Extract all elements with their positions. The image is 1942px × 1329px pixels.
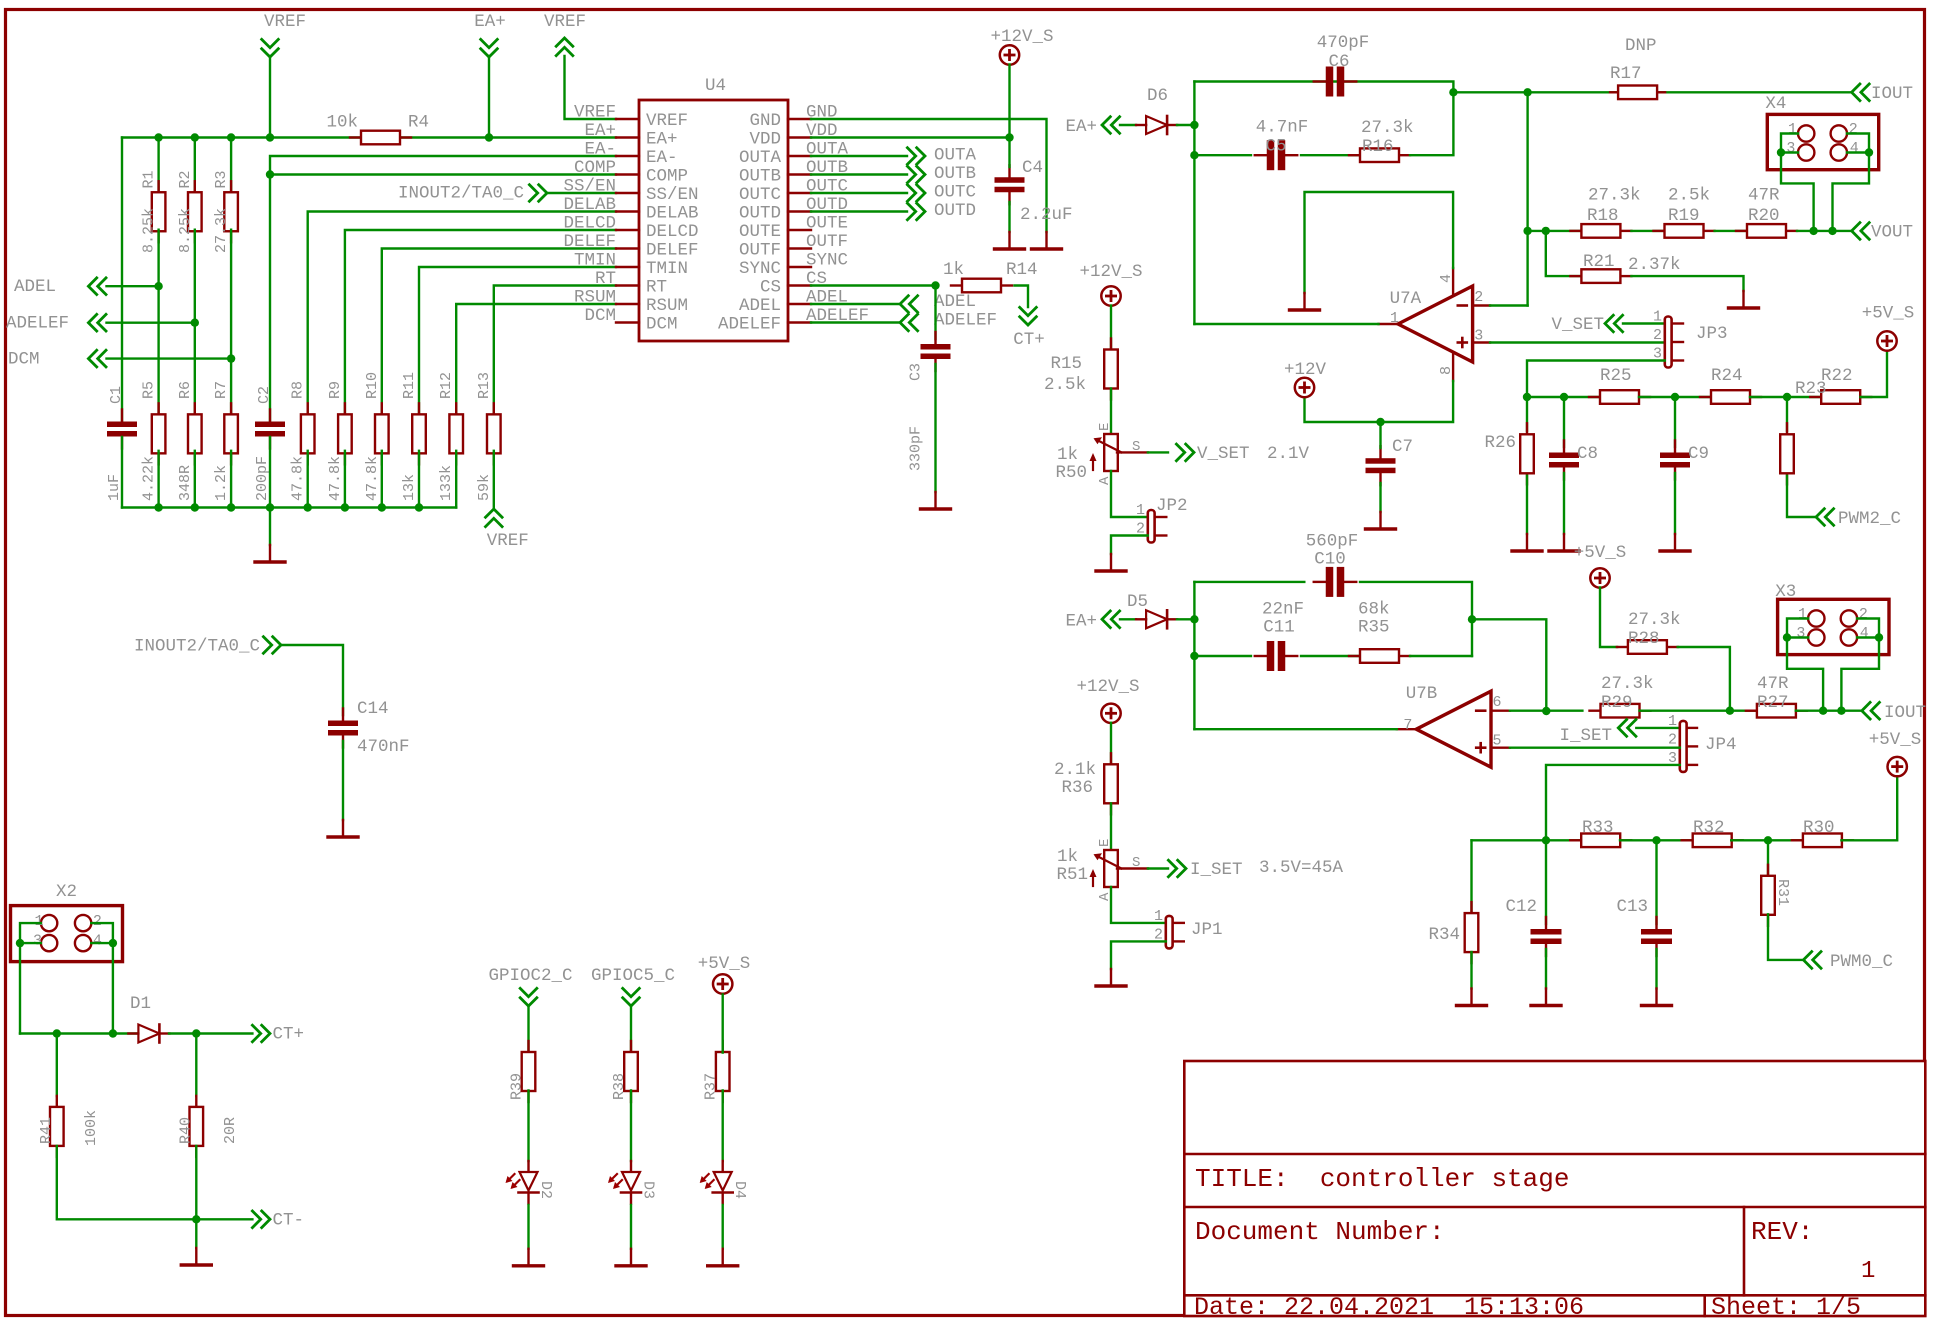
wire R5 to bus	[157, 451, 159, 508]
resistor R10	[364, 372, 389, 501]
node R33 row junctions	[1542, 836, 1772, 844]
svg-text:2.37k: 2.37k	[1628, 255, 1681, 275]
svg-text:R26: R26	[1484, 433, 1516, 453]
resistor R1	[141, 170, 166, 253]
svg-text:Document Number:: Document Number:	[1195, 1217, 1445, 1247]
svg-text:2.5k: 2.5k	[1044, 375, 1086, 395]
resistor R9	[327, 381, 352, 501]
net flag CT-	[251, 1210, 304, 1230]
svg-text:2: 2	[1653, 327, 1662, 344]
wire R26 branch	[1526, 397, 1528, 431]
net flag OUTD	[906, 201, 976, 221]
svg-text:R19: R19	[1668, 206, 1700, 226]
svg-text:OUTE: OUTE	[739, 222, 781, 242]
svg-text:2: 2	[93, 913, 102, 930]
svg-text:IOUT: IOUT	[1871, 84, 1913, 104]
svg-text:1uF: 1uF	[106, 474, 123, 501]
wire D2 to ground	[527, 1205, 529, 1249]
wire R3 to tap	[230, 230, 232, 359]
wire C1 to bus	[121, 437, 123, 508]
wire D4 to ground	[722, 1205, 724, 1249]
node C (DCM tap)	[227, 354, 235, 362]
wire C12 branch	[1545, 840, 1547, 924]
resistor R31	[1761, 865, 1791, 926]
svg-text:27.3k: 27.3k	[1361, 118, 1414, 138]
svg-text:1: 1	[1798, 606, 1807, 623]
svg-text:R34: R34	[1428, 925, 1460, 945]
svg-text:OUTA: OUTA	[934, 146, 977, 166]
svg-text:1: 1	[1861, 1258, 1875, 1285]
svg-text:CS: CS	[760, 278, 781, 298]
svg-text:C3: C3	[908, 363, 925, 381]
supply VREF (bottom, at R13)	[485, 509, 529, 551]
svg-text:13k: 13k	[401, 474, 418, 501]
wire OUTA to flag	[811, 155, 907, 157]
svg-text:EA+: EA+	[646, 130, 678, 150]
node U7B pin6 junction	[1542, 707, 1550, 715]
node X4 pin3 junction	[1777, 148, 1785, 156]
capacitor C12	[1505, 897, 1561, 956]
ground for R34	[1457, 989, 1487, 1006]
resistor R14	[943, 260, 1038, 292]
ground for U7A pin4	[1290, 293, 1320, 310]
wire C3 to ground	[934, 364, 936, 492]
capacitor C9	[1660, 441, 1709, 480]
wire R23 branch	[1786, 397, 1788, 431]
svg-text:3.5V=45A: 3.5V=45A	[1259, 858, 1344, 878]
jumper JP1	[1154, 908, 1223, 948]
net flag ADELEF (right of U4)	[900, 311, 997, 332]
svg-text:PWM2_C: PWM2_C	[1838, 509, 1901, 529]
svg-text:DELAB: DELAB	[563, 195, 616, 215]
svg-text:C12: C12	[1505, 897, 1537, 917]
wire C8 to ground	[1563, 473, 1565, 534]
svg-text:R14: R14	[1006, 260, 1038, 280]
net flag VOUT	[1852, 222, 1913, 243]
svg-text:RT: RT	[595, 269, 616, 289]
wire D1 to CT+ flag	[169, 1032, 252, 1034]
wire R21 branch	[1546, 231, 1581, 276]
wire OUTC to flag	[811, 192, 907, 194]
net flag INOUT2/TA0_C (to C14)	[134, 636, 281, 657]
wire R33-R32	[1620, 839, 1693, 841]
resistor R29	[1590, 674, 1654, 718]
net flag OUTC	[906, 183, 976, 203]
svg-text:R33: R33	[1582, 818, 1614, 838]
svg-text:200pF: 200pF	[254, 456, 271, 501]
node C5 row junction	[1190, 151, 1198, 159]
svg-text:2: 2	[1474, 289, 1483, 306]
ground for CT-	[181, 1248, 211, 1265]
svg-text:1: 1	[1136, 502, 1145, 519]
wire C9 to ground	[1674, 473, 1676, 534]
wire JP2 pin2 to ground	[1111, 536, 1148, 555]
svg-text:DELEF: DELEF	[563, 232, 616, 252]
resistor R15	[1044, 339, 1118, 400]
svg-text:R40: R40	[178, 1117, 195, 1144]
svg-text:2.1k: 2.1k	[1054, 760, 1096, 780]
svg-text:2: 2	[1849, 121, 1858, 138]
svg-text:R51: R51	[1056, 865, 1088, 885]
svg-text:CT+: CT+	[273, 1025, 305, 1045]
svg-text:R5: R5	[141, 381, 158, 399]
svg-text:R16: R16	[1362, 137, 1394, 157]
svg-text:GPIOC2_C: GPIOC2_C	[488, 966, 572, 986]
svg-text:2: 2	[1859, 606, 1868, 623]
resistor R40	[178, 1096, 240, 1157]
svg-text:R1: R1	[141, 170, 158, 188]
svg-text:+5V_S: +5V_S	[1869, 730, 1922, 750]
wire ADELEF from U4 to flag	[811, 321, 900, 323]
wire +12V_S to R36	[1110, 723, 1112, 765]
wire R23 to PWM2_C	[1787, 476, 1816, 517]
wire U7A pin4 gnd loop	[1305, 192, 1454, 293]
connector X3	[1775, 582, 1889, 655]
capacitor C3	[908, 332, 951, 471]
wire CT- to flag	[196, 1218, 252, 1220]
net flag GPIOC2_C	[488, 966, 572, 1006]
LED D4	[700, 1161, 749, 1204]
wire V_SET to JP3 pin1	[1623, 322, 1665, 324]
svg-text:EA+: EA+	[474, 12, 506, 32]
node C7 junction	[1376, 418, 1384, 426]
svg-text:C5: C5	[1265, 137, 1286, 157]
svg-text:R11: R11	[401, 372, 418, 399]
wire R36 to R51	[1110, 803, 1112, 850]
svg-text:4: 4	[93, 933, 102, 950]
resistor R34	[1428, 902, 1478, 963]
svg-text:1: 1	[1154, 908, 1163, 925]
wire R37 to D4	[722, 1090, 724, 1161]
svg-text:GPIOC5_C: GPIOC5_C	[591, 966, 675, 986]
svg-text:R20: R20	[1748, 206, 1780, 226]
node R18 branch junction	[1523, 88, 1531, 96]
ground for C13	[1642, 989, 1672, 1006]
svg-text:R30: R30	[1803, 818, 1835, 838]
wire U7A pin3 to JP3 pin2	[1490, 341, 1665, 343]
svg-text:IOUT: IOUT	[1884, 703, 1926, 723]
svg-text:10k: 10k	[326, 113, 358, 133]
svg-text:4: 4	[1850, 140, 1859, 157]
node X3 pin3 junction	[1783, 633, 1791, 641]
svg-text:8: 8	[1438, 366, 1455, 375]
svg-text:OUTC: OUTC	[739, 185, 781, 205]
node R21 branch	[1542, 227, 1550, 235]
supply +12V_S (top)	[990, 27, 1053, 65]
resistor R21	[1570, 252, 1680, 283]
wire R10 to bus	[381, 451, 383, 508]
svg-text:U4: U4	[705, 76, 726, 96]
resistor R20	[1736, 186, 1797, 238]
wire R18-R19	[1631, 230, 1668, 232]
wire C7 to ground	[1379, 483, 1381, 512]
wire C5/R16 row	[1194, 154, 1251, 156]
svg-text:R15: R15	[1050, 354, 1082, 374]
svg-text:2.1V: 2.1V	[1267, 444, 1310, 464]
wire R38 to D3	[630, 1090, 632, 1161]
supply VREF (top left)	[261, 12, 306, 57]
svg-text:1: 1	[1668, 713, 1677, 730]
wire R40 to CT- node	[195, 1146, 197, 1219]
ground for JP1	[1096, 969, 1126, 986]
ground for C9	[1660, 534, 1690, 551]
ground for C7	[1366, 512, 1396, 529]
resistor R17	[1610, 36, 1665, 99]
svg-text:R32: R32	[1693, 818, 1725, 838]
svg-text:R8: R8	[290, 381, 307, 399]
wire C8 branch	[1563, 397, 1565, 447]
capacitor C2	[254, 386, 285, 501]
node CT- junction	[192, 1215, 200, 1223]
wire X2 pin2/pin4 to CT+	[91, 923, 113, 1033]
svg-text:CT+: CT+	[1013, 330, 1045, 350]
ground for D4	[708, 1249, 738, 1266]
svg-text:R38: R38	[611, 1073, 628, 1100]
ground for JP2	[1096, 554, 1126, 571]
wire GPIOC5_C to R38	[630, 1006, 632, 1053]
svg-text:27.3k: 27.3k	[1601, 674, 1654, 694]
node fb right junction (U7B)	[1468, 615, 1476, 623]
wire C4 to ground	[1008, 202, 1010, 232]
ground under bus	[255, 545, 285, 562]
wire R18 node vertical	[1526, 92, 1528, 305]
wire R24-R22	[1750, 396, 1821, 398]
svg-text:1k: 1k	[1057, 445, 1078, 465]
svg-text:C6: C6	[1328, 52, 1349, 72]
wire CS node to C3	[934, 286, 936, 340]
wire to R5	[157, 286, 159, 417]
svg-text:DELAB: DELAB	[646, 204, 699, 224]
wire DELCD from U4 to R9	[345, 230, 616, 417]
net flag ADELEF	[6, 313, 107, 333]
svg-text:R27: R27	[1757, 693, 1789, 713]
svg-text:D3: D3	[640, 1181, 657, 1199]
resistor R24	[1700, 366, 1761, 404]
wire D5 to fb node	[1177, 618, 1194, 620]
ground for C8	[1549, 534, 1579, 551]
wire CS from U4 to R14 node	[811, 284, 936, 286]
resistor R7	[213, 381, 238, 501]
LED D2	[506, 1161, 555, 1204]
resistor R3	[213, 170, 238, 253]
resistor R12	[438, 372, 463, 501]
wire R26 to ground	[1526, 476, 1528, 534]
svg-text:R28: R28	[1628, 629, 1660, 649]
wire +5V_S to R37	[722, 995, 724, 1053]
svg-text:C1: C1	[108, 386, 125, 404]
resistor R33	[1570, 818, 1631, 847]
diode D5	[1127, 592, 1177, 628]
jumper JP2	[1136, 496, 1188, 543]
wire GND net from U4	[811, 119, 1047, 232]
node R18 row junction	[1523, 227, 1531, 235]
ground for U4 GND	[1032, 232, 1062, 249]
node X2 pin3 junction	[16, 939, 24, 947]
jumper JP4	[1668, 713, 1737, 772]
title block TITLE text	[1195, 1164, 1569, 1194]
LED D3	[608, 1161, 657, 1204]
resistor R41	[38, 1096, 100, 1157]
wire EA+ rail	[122, 136, 616, 138]
node B (ADELEF tap)	[191, 319, 199, 327]
svg-text:VREF: VREF	[646, 111, 688, 131]
svg-text:OUTF: OUTF	[806, 232, 848, 252]
svg-text:8.25k: 8.25k	[177, 208, 194, 253]
op-amp U7A	[1379, 268, 1491, 381]
wire R18 row	[1528, 230, 1582, 232]
net flag DCM	[8, 349, 107, 369]
wire R15 to R50	[1110, 389, 1112, 435]
title block REV value	[1861, 1258, 1875, 1285]
svg-text:RSUM: RSUM	[574, 288, 616, 308]
supply +12V_S (R36)	[1076, 677, 1139, 723]
net flag I_SET (JP4)	[1559, 719, 1636, 746]
resistor R22	[1810, 366, 1871, 404]
wire JP4 pin3 down	[1546, 765, 1680, 840]
supply VREF (arrow up, near U4)	[544, 12, 586, 57]
wire X3 pins 2/4 down	[1841, 619, 1879, 711]
wire VREF bottom bus	[122, 506, 456, 508]
potentiometer R51	[1056, 839, 1147, 901]
resistor R35	[1349, 600, 1410, 663]
ground for R21	[1729, 291, 1759, 308]
svg-text:E: E	[1097, 839, 1113, 847]
svg-text:ADEL: ADEL	[14, 277, 56, 297]
wire C13 branch	[1655, 840, 1657, 924]
svg-text:OUTC: OUTC	[934, 183, 976, 203]
wire U7A pin8 to +12V	[1305, 381, 1454, 422]
svg-text:U7A: U7A	[1390, 289, 1422, 309]
wire R35 right	[1410, 655, 1472, 657]
svg-text:R13: R13	[476, 372, 493, 399]
svg-text:R2: R2	[177, 170, 194, 188]
wire R16 to fb right vertical	[1410, 92, 1453, 155]
svg-text:C4: C4	[1022, 158, 1043, 178]
svg-text:R36: R36	[1061, 778, 1093, 798]
wire R20 to VOUT flag	[1797, 230, 1852, 232]
wire R21 to ground	[1631, 276, 1743, 291]
svg-text:R10: R10	[364, 372, 381, 399]
wire R17 row	[1453, 91, 1851, 93]
net flag PWM2_C	[1816, 508, 1901, 529]
svg-text:D4: D4	[731, 1181, 748, 1199]
net flag CT+	[251, 1024, 304, 1044]
wire R11 to bus	[418, 451, 420, 508]
svg-text:1: 1	[34, 913, 43, 930]
wire R25-R24	[1639, 396, 1711, 398]
svg-text:C11: C11	[1263, 618, 1295, 638]
svg-text:27.3k: 27.3k	[1588, 186, 1641, 206]
label I_SET scale	[1259, 858, 1344, 878]
wire to R7	[230, 359, 232, 417]
svg-text:DCM: DCM	[584, 306, 616, 326]
svg-text:INOUT2/TA0_C: INOUT2/TA0_C	[398, 184, 524, 204]
svg-text:20R: 20R	[222, 1117, 239, 1144]
svg-text:R29: R29	[1601, 693, 1633, 713]
wire ADEL flag to R1	[107, 285, 159, 287]
svg-text:X2: X2	[56, 882, 77, 902]
resistor R11	[401, 372, 426, 501]
svg-text:C2: C2	[256, 386, 273, 404]
resistor R25	[1589, 366, 1650, 404]
svg-text:Date: 22.04.2021 15:13:06: Date: 22.04.2021 15:13:06	[1194, 1293, 1584, 1322]
supply +5V_S (R28)	[1574, 543, 1627, 588]
wire bus to ground	[269, 508, 271, 546]
resistor R39	[509, 1041, 536, 1102]
IC U4 (PWM controller)	[563, 76, 869, 341]
wire ADEL from U4 to flag	[811, 303, 900, 305]
resistor R23	[1780, 379, 1826, 484]
wire R14 to CT+ flag	[1015, 286, 1029, 308]
svg-text:EA+: EA+	[584, 121, 616, 141]
wire R50 wiper to V_SET flag	[1148, 451, 1168, 453]
svg-text:R6: R6	[177, 381, 194, 399]
wire R50 to JP2 pin1	[1111, 471, 1148, 517]
svg-text:1: 1	[1788, 121, 1797, 138]
net flag ADEL (right of U4)	[900, 292, 976, 313]
svg-text:59k: 59k	[476, 474, 493, 501]
net flag EA+ (to D6)	[1065, 116, 1120, 137]
wire R33 row left	[1472, 839, 1582, 841]
svg-text:3: 3	[1796, 625, 1805, 642]
supply +5V_S (LED section)	[698, 954, 751, 994]
wire R8 to bus	[307, 451, 309, 508]
net flag OUTB	[906, 164, 976, 184]
wire R9 to bus	[344, 451, 346, 508]
svg-text:DELCD: DELCD	[563, 214, 616, 234]
capacitor C11	[1255, 600, 1304, 672]
wire R22 to +5V_S	[1861, 351, 1888, 398]
wire C7 top	[1379, 422, 1381, 448]
potentiometer R50	[1055, 423, 1147, 485]
svg-text:348R: 348R	[177, 465, 194, 501]
svg-text:DNP: DNP	[1625, 36, 1657, 56]
ground for D2	[514, 1249, 544, 1266]
svg-text:R21: R21	[1583, 252, 1615, 272]
wire R12 to bus	[455, 451, 457, 508]
svg-text:330pF: 330pF	[908, 426, 925, 471]
wire R25 row	[1527, 396, 1600, 398]
ground for C14	[328, 820, 358, 837]
wire R51 wiper to I_SET flag	[1148, 867, 1168, 869]
supply +12V_S (R15)	[1079, 262, 1142, 306]
svg-text:3: 3	[1474, 328, 1483, 345]
wire CT+ to R41	[56, 1034, 58, 1097]
svg-text:D6: D6	[1147, 86, 1168, 106]
resistor R38	[611, 1041, 638, 1102]
wire R31 branch	[1767, 840, 1769, 876]
node EA+ rail junctions	[154, 133, 493, 141]
supply EA+ (top)	[474, 12, 506, 57]
wire TMIN from U4 to R11	[419, 267, 616, 417]
svg-text:27.3k: 27.3k	[213, 208, 230, 253]
node VOUT junctions	[1809, 227, 1836, 235]
capacitor C6	[1314, 33, 1370, 97]
wire GPIOC2_C to R39	[527, 1006, 529, 1053]
svg-text:R4: R4	[408, 113, 429, 133]
svg-text:SYNC: SYNC	[739, 259, 781, 279]
wire R32-R30	[1731, 839, 1803, 841]
svg-text:ADEL: ADEL	[739, 296, 781, 316]
wire U7B output to feedback	[1194, 728, 1396, 730]
svg-text:X3: X3	[1775, 582, 1796, 602]
wire RSUM from U4 to R12	[456, 304, 616, 417]
svg-text:V_SET: V_SET	[1197, 444, 1250, 464]
svg-text:47.8k: 47.8k	[327, 456, 344, 501]
wire C12 to ground	[1545, 949, 1547, 989]
wire C13 to ground	[1655, 949, 1657, 989]
wire R13 to VREF flag	[493, 451, 495, 509]
